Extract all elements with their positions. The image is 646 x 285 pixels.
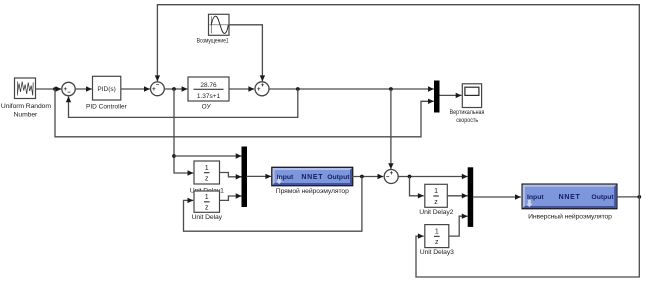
- svg-text:z: z: [205, 176, 209, 183]
- wire inverse neuroemulator output: [617, 196, 639, 198]
- svg-text:−: −: [156, 83, 160, 89]
- svg-text:Output: Output: [327, 174, 350, 181]
- junction output to sum S4: [389, 87, 393, 91]
- sum S1: [62, 82, 75, 96]
- wire Unit Delay2 to mux M2 input 2: [447, 193, 467, 198]
- label Uniform Random Number: [1, 103, 51, 118]
- wire transfer Fcn OU to sum S3: [229, 86, 254, 91]
- wire sum S4 to mux M2 input 1: [398, 174, 467, 179]
- label Unit Delay3: [420, 249, 454, 256]
- svg-text:28.76: 28.76: [200, 82, 217, 89]
- svg-text:Unit Delay3: Unit Delay3: [420, 249, 454, 256]
- wire sum S2 to transfer Fcn OU: [164, 86, 187, 91]
- block transfer Fcn OU: [188, 77, 229, 101]
- svg-text:Input: Input: [527, 194, 544, 201]
- svg-text:Вертикальная: Вертикальная: [450, 109, 485, 116]
- svg-text:скорость: скорость: [456, 117, 478, 124]
- block Unit Delay: [194, 191, 220, 212]
- svg-text:Инверсный нейроэмулятор: Инверсный нейроэмулятор: [528, 212, 612, 220]
- svg-text:Number: Number: [14, 111, 38, 118]
- label Unit Delay1: [190, 187, 224, 194]
- svg-text:1: 1: [435, 229, 439, 236]
- wire reference branch to mux M0 input 2: [55, 89, 434, 137]
- junction on reference signal: [53, 87, 57, 91]
- wire control tap to mux M1 input 1: [174, 153, 242, 158]
- svg-text:Возмущение1: Возмущение1: [197, 38, 229, 45]
- svg-text:Прямой нейроэмулятор: Прямой нейроэмулятор: [276, 187, 349, 195]
- svg-text:+: +: [261, 83, 265, 89]
- wire direct neuroemulator to sum S4: [352, 174, 383, 179]
- mux M2: [468, 168, 473, 227]
- svg-text:NNET: NNET: [301, 174, 323, 181]
- block direct neuroemulator: [272, 167, 353, 185]
- sum S3: [255, 82, 269, 96]
- wire error tap to Unit Delay2: [410, 177, 424, 199]
- label Vozmushchenie1: [197, 38, 229, 45]
- wire output y to sum S4 top: [388, 89, 393, 169]
- block Unit Delay1: [194, 161, 220, 184]
- wire mux M1 to direct neuroemulator: [247, 174, 272, 179]
- wire inverse output top loop to sum S2: [155, 5, 640, 197]
- svg-text:1: 1: [205, 165, 209, 172]
- junction inverse output: [637, 195, 641, 199]
- mux M1: [242, 147, 247, 207]
- wire control tap to Unit Delay1: [174, 89, 193, 176]
- block Unit Delay2: [425, 184, 448, 207]
- sum S2: [151, 82, 165, 96]
- label Unit Delay: [192, 214, 223, 221]
- wire Unit Delay1 to mux M1 input 2: [220, 173, 242, 180]
- source block Uniform Random Number: [15, 78, 36, 99]
- svg-text:−: −: [67, 90, 71, 96]
- label direct neuroemulator: [276, 187, 349, 195]
- svg-text:ОУ: ОУ: [202, 104, 212, 111]
- label PID Controller: [86, 104, 128, 111]
- svg-text:z: z: [205, 205, 209, 212]
- svg-text:1.37s+1: 1.37s+1: [197, 93, 221, 100]
- block Unit Delay3: [425, 225, 449, 248]
- wire mux M2 to inverse neuroemulator: [473, 194, 521, 199]
- label Unit Delay2: [419, 209, 453, 216]
- svg-text:Input: Input: [277, 174, 294, 181]
- label Vertikalnaya skorost: [450, 109, 485, 124]
- wire output feedback to sum S1: [66, 89, 298, 117]
- svg-text:PID(s): PID(s): [97, 86, 115, 93]
- svg-text:1: 1: [434, 188, 438, 195]
- svg-text:Output: Output: [591, 194, 614, 201]
- wire Unit Delay to mux M1 input 3: [220, 193, 242, 200]
- wire sum S1 to PID Controller: [75, 86, 92, 91]
- label inverse neuroemulator: [528, 212, 612, 220]
- svg-text:z: z: [435, 239, 439, 246]
- source block Vozmushchenie1 (sine wave): [209, 14, 230, 35]
- wire Uniform Random Number to sum S1: [36, 86, 62, 91]
- label OU: [202, 104, 212, 111]
- block PID Controller: [93, 76, 121, 100]
- wire Vozmushchenie1 to sum S3 top: [229, 25, 265, 81]
- wire mux M0 to scope: [440, 93, 462, 98]
- svg-text:z: z: [434, 199, 438, 206]
- svg-text:+: +: [390, 171, 394, 177]
- junction control signal u: [172, 87, 176, 91]
- wire Unit Delay3 to mux M2 input 3: [449, 214, 468, 237]
- junction neuroemulator output: [360, 175, 364, 179]
- wire PID Controller to sum S2: [121, 86, 150, 91]
- junction control tap to mux M1: [172, 154, 176, 158]
- svg-text:1: 1: [205, 194, 209, 201]
- scope block: [462, 84, 481, 108]
- block inverse neuroemulator: [522, 184, 617, 209]
- svg-text:Unit Delay2: Unit Delay2: [419, 209, 453, 216]
- wire neuroemulator output to Unit Delay: [184, 177, 362, 232]
- svg-text:Uniform Random: Uniform Random: [1, 103, 51, 110]
- mux M0: [435, 81, 440, 112]
- wire system output y to mux M0 input 1: [269, 86, 434, 91]
- junction error to Unit Delay2: [408, 175, 412, 179]
- junction feedback to S1: [296, 87, 300, 91]
- svg-text:NNET: NNET: [559, 194, 581, 201]
- sum S4: [384, 170, 398, 184]
- wire inverse output bottom loop to Unit Delay3: [416, 197, 639, 277]
- svg-text:Unit Delay: Unit Delay: [192, 214, 223, 221]
- svg-text:PID Controller: PID Controller: [86, 104, 128, 111]
